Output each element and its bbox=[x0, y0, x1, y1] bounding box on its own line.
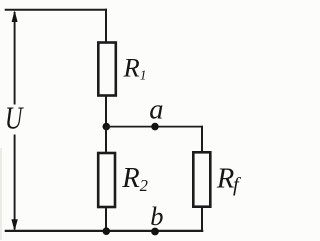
svg-text:R: R bbox=[121, 163, 139, 194]
junction dot bottom of R2 bbox=[103, 227, 111, 235]
voltage arrow lower segment bbox=[14, 135, 16, 230]
node b dot bbox=[151, 228, 159, 236]
wire: R1 top lead bbox=[105, 9, 107, 44]
svg-text:R: R bbox=[216, 164, 234, 195]
wire: R2 top lead bbox=[105, 127, 107, 154]
label R1 bbox=[123, 53, 147, 83]
resistor Rf bbox=[193, 152, 210, 206]
svg-text:a: a bbox=[149, 95, 163, 126]
wire: Rf bottom lead bbox=[201, 207, 203, 232]
resistor R2 bbox=[98, 153, 115, 207]
wire: R2 bottom lead bbox=[105, 207, 107, 232]
svg-text:U: U bbox=[5, 101, 24, 136]
voltage arrow upper arrowhead bbox=[12, 10, 18, 22]
svg-text:b: b bbox=[150, 201, 163, 231]
svg-text:1: 1 bbox=[140, 67, 147, 82]
svg-text:R: R bbox=[123, 53, 140, 83]
label Rf bbox=[216, 164, 242, 196]
label R2 bbox=[121, 163, 148, 195]
svg-text:2: 2 bbox=[140, 176, 148, 195]
wire: node a horizontal bbox=[106, 126, 203, 128]
node a dot bbox=[151, 123, 159, 131]
resistor R1 bbox=[98, 43, 116, 96]
wire: R1 bottom lead bbox=[105, 95, 107, 128]
voltage arrow upper segment bbox=[14, 12, 16, 105]
junction dot at R2 top bbox=[103, 123, 111, 131]
voltage arrow lower arrowhead bbox=[11, 219, 17, 231]
wire: Rf top lead bbox=[201, 126, 203, 153]
wire: bottom horizontal bbox=[5, 230, 204, 232]
wire: top horizontal bbox=[5, 9, 107, 11]
